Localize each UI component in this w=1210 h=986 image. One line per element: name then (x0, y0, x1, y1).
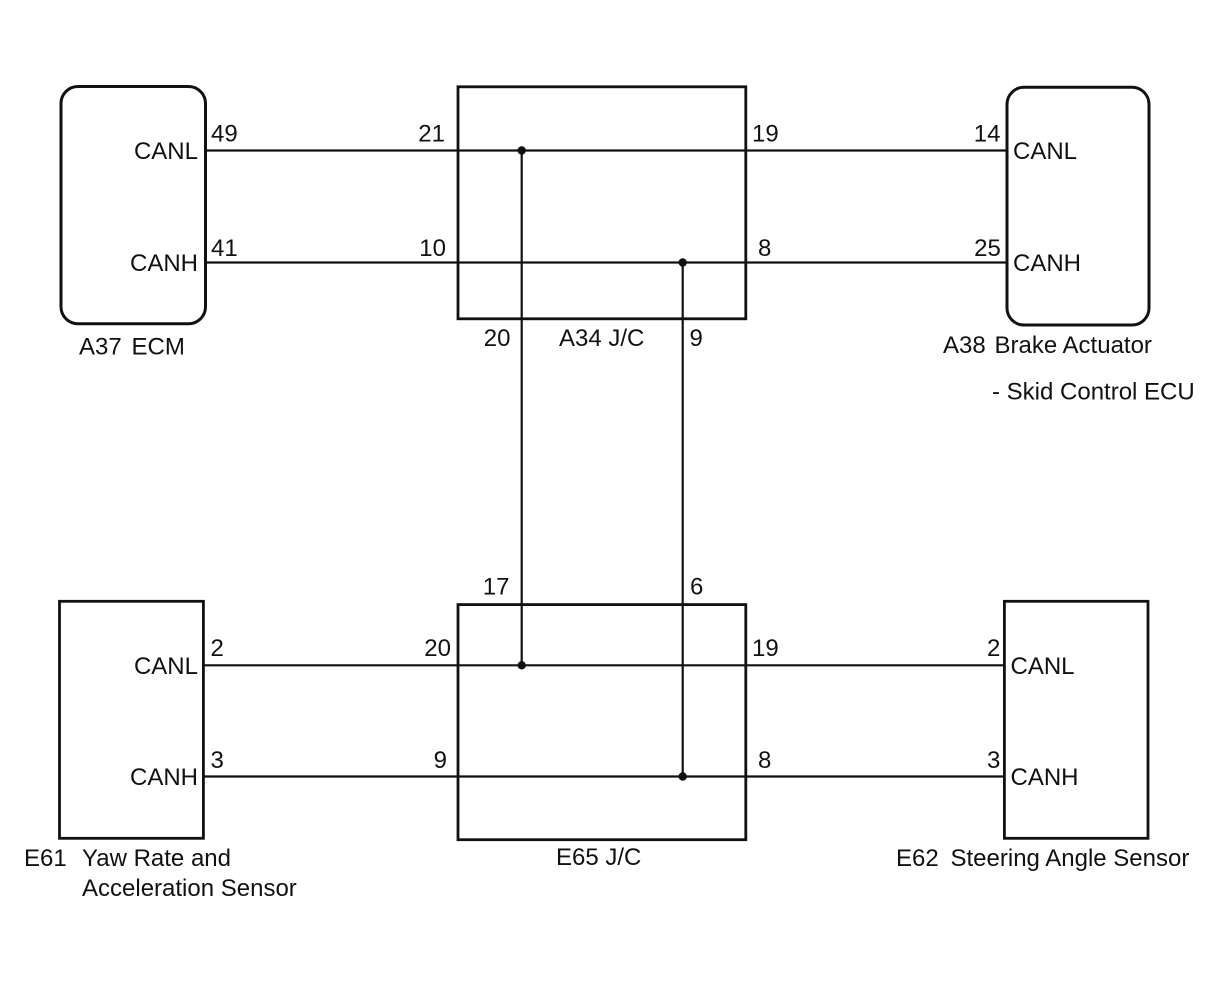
svg-text:CANH: CANH (130, 764, 198, 791)
svg-text:8: 8 (758, 235, 771, 262)
svg-text:9: 9 (690, 325, 703, 352)
svg-text:CANH: CANH (1013, 250, 1081, 277)
svg-text:6: 6 (690, 574, 703, 601)
svg-text:A34 J/C: A34 J/C (559, 325, 644, 352)
svg-text:19: 19 (752, 121, 779, 148)
svg-text:- Skid Control ECU: - Skid Control ECU (992, 379, 1195, 406)
svg-text:3: 3 (987, 747, 1000, 774)
svg-text:41: 41 (211, 235, 238, 262)
svg-text:3: 3 (211, 747, 224, 774)
svg-text:9: 9 (434, 747, 447, 774)
svg-text:A37: A37 (79, 334, 122, 361)
svg-text:CANL: CANL (1011, 653, 1075, 680)
svg-text:17: 17 (483, 574, 510, 601)
svg-text:19: 19 (752, 635, 779, 662)
svg-text:Brake Actuator: Brake Actuator (995, 332, 1152, 359)
svg-text:Acceleration Sensor: Acceleration Sensor (82, 875, 297, 902)
svg-text:8: 8 (758, 747, 771, 774)
svg-text:49: 49 (211, 121, 238, 148)
svg-text:25: 25 (974, 235, 1001, 262)
svg-text:Steering Angle Sensor: Steering Angle Sensor (951, 845, 1190, 872)
svg-text:CANL: CANL (134, 138, 198, 165)
svg-text:A38: A38 (943, 332, 986, 359)
svg-text:E61: E61 (24, 845, 67, 872)
svg-text:Yaw Rate and: Yaw Rate and (82, 845, 231, 872)
svg-text:CANH: CANH (130, 250, 198, 277)
svg-text:2: 2 (987, 635, 1000, 662)
svg-text:ECM: ECM (132, 334, 185, 361)
svg-text:CANL: CANL (1013, 138, 1077, 165)
svg-text:14: 14 (974, 121, 1001, 148)
svg-text:20: 20 (484, 325, 511, 352)
svg-text:2: 2 (211, 635, 224, 662)
svg-text:20: 20 (424, 635, 451, 662)
svg-text:E62: E62 (896, 845, 939, 872)
svg-text:E65 J/C: E65 J/C (556, 844, 641, 871)
svg-text:21: 21 (418, 121, 445, 148)
svg-text:CANH: CANH (1011, 764, 1079, 791)
svg-text:10: 10 (419, 235, 446, 262)
svg-text:CANL: CANL (134, 653, 198, 680)
